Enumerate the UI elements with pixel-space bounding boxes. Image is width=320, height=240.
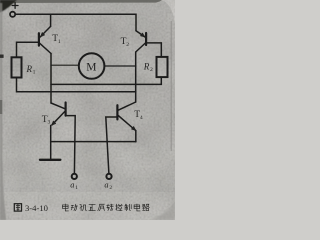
svg-text:1: 1 (75, 185, 78, 191)
caption: 图 (14, 204, 21, 211)
svg-text:1: 1 (33, 70, 36, 76)
svg-text:2: 2 (150, 67, 153, 73)
+ supply terminal (10, 3, 18, 17)
wire: R1 bottom to cross line 2 (17, 78, 136, 92)
terminal a2 (106, 174, 111, 179)
motor M (79, 53, 105, 79)
svg-text:3-4-10: 3-4-10 (25, 203, 48, 213)
wire: motor left lead (51, 64, 79, 66)
wire: T1 base to R1 (17, 42, 39, 57)
svg-text:M: M (86, 61, 96, 73)
transistor T2 (136, 31, 146, 52)
wire: T3 base to a1 (66, 116, 76, 174)
svg-text:R: R (26, 64, 33, 74)
terminal a1 (72, 174, 77, 179)
wire: T2 collector vertical (135, 52, 137, 102)
caption: 电动机正反转控制电路 (glyph blocks) (63, 204, 150, 211)
ground (40, 159, 60, 161)
transistor T4 (117, 102, 135, 131)
wire: T3 emitter to ground (50, 126, 52, 160)
wire: emitter cross line (51, 141, 136, 143)
svg-text:a: a (70, 181, 74, 190)
transistor T1 (39, 26, 51, 53)
svg-text:1: 1 (58, 39, 61, 45)
wire: cross line 1 (T1 collector to R2 bottom) (51, 77, 161, 84)
svg-text:2: 2 (126, 42, 129, 48)
wire: T4 emitter drop (135, 131, 137, 142)
wire: T1 collector vertical (50, 54, 52, 104)
wire: T4 base to a2 (106, 117, 118, 174)
wire: motor right lead (104, 65, 135, 67)
resistor R2 (157, 57, 168, 77)
wire: T1 emitter drop (50, 14, 52, 26)
wire: top rail (15, 14, 136, 31)
svg-text:R: R (143, 62, 150, 72)
svg-text:3: 3 (48, 120, 51, 126)
svg-text:4: 4 (140, 115, 143, 121)
wire: T2 base to R2 (146, 43, 161, 57)
svg-text:2: 2 (109, 185, 112, 191)
resistor R1 (12, 57, 22, 77)
transistor T3 (51, 103, 66, 126)
svg-text:a: a (104, 181, 108, 190)
